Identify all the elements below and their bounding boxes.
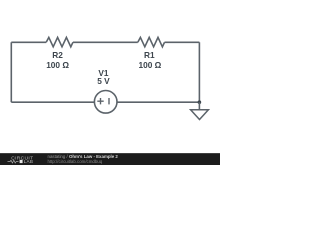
ground stub	[198, 102, 200, 110]
wire left vertical	[10, 42, 12, 102]
CircuitLab logo square	[20, 160, 23, 163]
wire top-middle segment	[73, 41, 138, 43]
resistor R1	[138, 37, 165, 46]
svg-text:R1: R1	[144, 50, 155, 60]
wire right vertical	[198, 42, 200, 102]
node junction dot	[198, 100, 202, 104]
ground symbol	[191, 110, 209, 120]
svg-text:5 V: 5 V	[97, 76, 110, 86]
voltage source V1 circle	[94, 91, 117, 114]
footer bar	[0, 153, 220, 165]
wire top-left segment	[11, 41, 46, 43]
voltage source V1 minus bar	[108, 98, 110, 104]
svg-text:http://circuitlab.com/cmdbuq: http://circuitlab.com/cmdbuq	[48, 159, 103, 164]
resistor R2	[46, 37, 73, 46]
wire bottom-left segment	[11, 101, 94, 103]
wire top-right segment	[165, 41, 200, 43]
svg-text:100 Ω: 100 Ω	[138, 60, 161, 70]
svg-text:100 Ω: 100 Ω	[46, 60, 69, 70]
svg-text:R2: R2	[52, 50, 63, 60]
wire bottom-right segment	[117, 101, 199, 103]
voltage source V1 plus sign	[97, 98, 103, 104]
svg-text:LAB: LAB	[24, 159, 34, 164]
CircuitLab logo zigzag	[8, 160, 19, 163]
